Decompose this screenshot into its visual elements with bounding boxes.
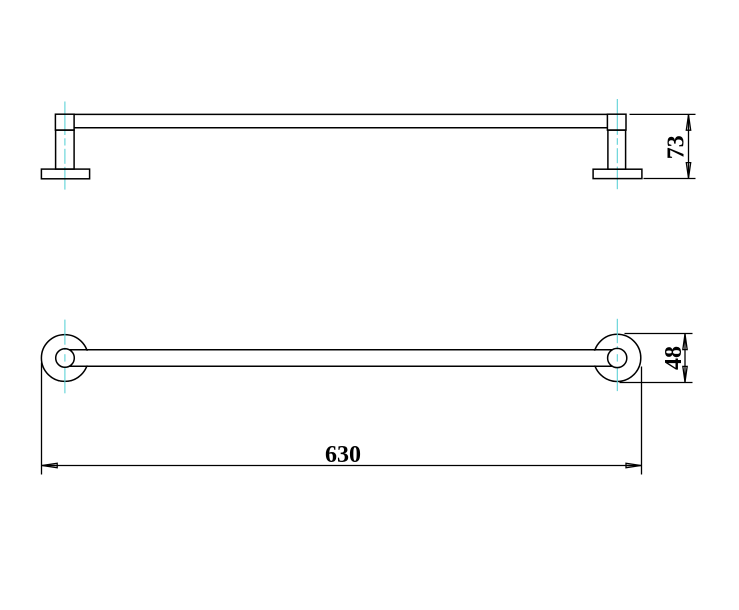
centerline right post: [616, 99, 618, 189]
dim48 arrow down: [683, 366, 687, 382]
right flange: [593, 169, 642, 178]
dim48 dimension line: [684, 334, 686, 383]
bar top line: [74, 113, 607, 115]
svg-text:630: 630: [325, 442, 361, 468]
dim48 extension line top: [625, 333, 693, 335]
dim630 extension line left: [41, 363, 43, 475]
dim73 arrow up: [686, 115, 690, 130]
right cap: [607, 114, 626, 130]
dim630 dimension line: [42, 465, 642, 467]
dim48 extension line bottom: [620, 382, 693, 384]
dim630 arrow right: [626, 463, 641, 467]
dim73 extension line bottom: [644, 178, 696, 180]
mask gap in left outer circle where bar passes: [72, 351, 90, 366]
centerline right circle: [616, 319, 618, 391]
right inner circle: [608, 348, 627, 367]
dim73 arrow down: [686, 163, 690, 178]
mask gap in right outer circle where bar passes: [592, 351, 613, 366]
left outer circle: [41, 335, 88, 382]
left flange: [41, 169, 89, 179]
bar top line (plan): [70, 349, 613, 351]
left inner circle: [56, 349, 75, 368]
right outer circle: [594, 334, 641, 381]
dim630 extension line right: [641, 367, 643, 475]
left post: [56, 130, 75, 169]
left cap: [55, 114, 74, 130]
bar bottom line: [74, 127, 607, 129]
dim73 dimension line: [688, 114, 690, 178]
centerline left post: [64, 102, 66, 190]
right post: [608, 130, 626, 169]
svg-text:73: 73: [663, 135, 689, 159]
centerline left circle: [64, 320, 66, 394]
svg-text:48: 48: [661, 346, 687, 370]
dim48 arrow up: [683, 334, 687, 350]
dim73 extension line top: [630, 113, 696, 115]
dim630 arrow left: [42, 463, 57, 467]
bar bottom line (plan): [69, 365, 613, 367]
